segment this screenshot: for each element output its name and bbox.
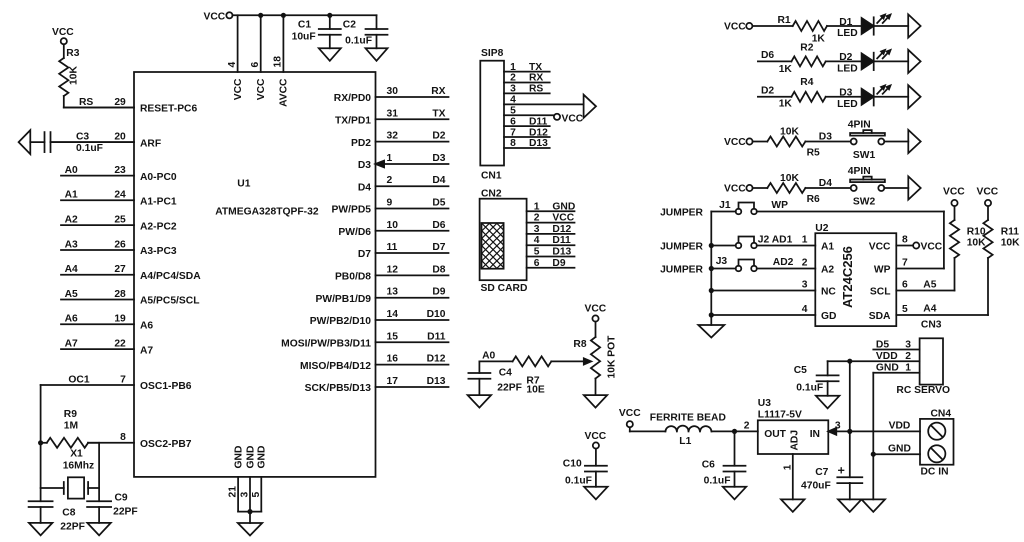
- power flag VCC (ferrite bead): [619, 408, 641, 431]
- U2 pin 8 VCC: [869, 235, 908, 253]
- jumper J1 WP: [711, 200, 788, 214]
- svg-text:J3: J3: [716, 256, 728, 267]
- wire: [805, 178, 850, 189]
- svg-text:D11: D11: [552, 235, 571, 246]
- CN2 pin 4 D11: [527, 235, 575, 246]
- svg-text:C9: C9: [115, 493, 128, 504]
- wire VDD net vertical: [849, 361, 851, 477]
- U1 pin 14 PW/PB2/D10: [310, 309, 449, 327]
- svg-text:VCC: VCC: [977, 187, 999, 198]
- U1 pin 30 RX/PD0: [334, 86, 449, 104]
- svg-text:16: 16: [387, 354, 399, 365]
- svg-text:VCC: VCC: [204, 12, 226, 23]
- node arrow SW2 net: [908, 176, 920, 199]
- CN1 pin 8 D13: [504, 138, 550, 149]
- svg-text:GND: GND: [233, 446, 244, 469]
- capacitor C6 0.1uF: [702, 431, 746, 486]
- connector CN4 DC IN body: [920, 409, 954, 478]
- svg-text:JUMPER: JUMPER: [660, 208, 703, 219]
- U1 pin 27 A4/PC4/SDA: [61, 264, 201, 282]
- svg-text:6: 6: [534, 258, 540, 269]
- svg-text:R1: R1: [778, 15, 791, 26]
- svg-text:21: 21: [228, 486, 239, 498]
- svg-text:C2: C2: [343, 20, 356, 31]
- wire: [827, 25, 862, 27]
- svg-text:DC IN: DC IN: [921, 467, 949, 478]
- capacitor C7 470uF (polarized): [801, 467, 862, 500]
- svg-text:VCC: VCC: [256, 78, 267, 100]
- node arrow D1 net: [908, 14, 920, 37]
- wire SCL to A5 net: [896, 280, 954, 291]
- CN1 pin 1 TX: [504, 62, 550, 73]
- power flag VCC (R8): [585, 304, 607, 322]
- svg-text:D13: D13: [552, 247, 571, 258]
- svg-text:VCC: VCC: [943, 187, 965, 198]
- U1 pin 23 A0-PC0: [61, 165, 177, 183]
- CN1 pin 4: [504, 95, 584, 106]
- power flag VCC (SW2 row): [724, 184, 753, 195]
- node arrow ARF (left): [19, 130, 31, 154]
- svg-text:R3: R3: [66, 48, 79, 59]
- svg-text:OSC2-PB7: OSC2-PB7: [140, 439, 192, 450]
- resistor R10 10K: [950, 206, 986, 290]
- svg-text:10K: 10K: [69, 66, 80, 85]
- svg-text:D4: D4: [358, 182, 371, 193]
- svg-text:ATMEGA328TQPF-32: ATMEGA328TQPF-32: [215, 207, 319, 218]
- svg-text:3: 3: [510, 84, 516, 95]
- svg-text:A2: A2: [821, 265, 834, 276]
- svg-text:4PIN: 4PIN: [848, 166, 871, 177]
- power flag VCC (U2 pin8): [896, 242, 943, 253]
- LED D3: [837, 85, 890, 109]
- svg-text:JUMPER: JUMPER: [660, 242, 703, 253]
- svg-text:VCC: VCC: [869, 242, 891, 253]
- power flag VCC (CN1 pin5): [554, 114, 584, 125]
- U1 pin 7 OSC1-PB6: [41, 374, 192, 392]
- svg-text:6: 6: [902, 280, 908, 291]
- svg-text:CN4: CN4: [931, 409, 952, 420]
- node arrow CN1 pin4: [584, 95, 596, 118]
- wire: [874, 96, 909, 98]
- svg-text:D2: D2: [761, 86, 774, 97]
- junction VCC rail pin18: [281, 13, 286, 18]
- svg-text:7: 7: [510, 127, 516, 138]
- svg-text:D9: D9: [432, 287, 445, 298]
- svg-text:2: 2: [802, 258, 808, 269]
- svg-text:470uF: 470uF: [801, 480, 831, 491]
- node arrow D2 net: [908, 50, 920, 73]
- U1 pin 13 PW/PB1/D9: [315, 287, 448, 305]
- wire: [884, 141, 908, 143]
- junction VDD/servo: [847, 359, 852, 364]
- wire: [758, 60, 792, 62]
- power flag VCC (top rail): [204, 12, 233, 23]
- U1 pin 16 MISO/PB4/D12: [300, 354, 448, 372]
- capacitor C10 0.1uF: [563, 449, 607, 487]
- svg-text:GND: GND: [552, 201, 575, 212]
- svg-text:A7: A7: [140, 345, 153, 356]
- svg-text:D12: D12: [529, 127, 548, 138]
- wire AD2 to U2 pin2: [757, 268, 816, 270]
- svg-text:22PF: 22PF: [497, 383, 522, 394]
- svg-text:SIP8: SIP8: [481, 48, 504, 59]
- junction J3 bus: [709, 266, 714, 271]
- U2 pin 2 A2: [802, 258, 835, 276]
- wire: [753, 141, 768, 143]
- capacitor C8 22PF: [29, 501, 85, 532]
- svg-text:PW/PB1/D9: PW/PB1/D9: [315, 294, 371, 305]
- svg-text:6: 6: [250, 62, 261, 68]
- svg-text:2: 2: [744, 421, 750, 432]
- svg-text:SDA: SDA: [869, 311, 891, 322]
- wire: [826, 96, 862, 98]
- svg-text:4: 4: [227, 62, 238, 68]
- svg-text:VCC: VCC: [52, 27, 74, 38]
- svg-text:RX/PD0: RX/PD0: [334, 93, 371, 104]
- CN1 pin 2 RX: [504, 73, 550, 84]
- svg-text:10K: 10K: [1001, 238, 1020, 249]
- svg-text:32: 32: [387, 131, 399, 142]
- svg-text:C7: C7: [815, 467, 828, 478]
- U1 pin 17 SCK/PB5/D13: [305, 376, 449, 394]
- svg-text:D3: D3: [819, 132, 832, 143]
- svg-text:0.1uF: 0.1uF: [704, 476, 731, 487]
- node arrow D3 net: [908, 85, 920, 108]
- svg-text:D3: D3: [432, 153, 445, 164]
- connector CN1 SIP8 body: [480, 48, 504, 182]
- ground under R8: [584, 395, 607, 408]
- wire GND to CN4: [873, 443, 920, 454]
- CN2 pin 6 D9: [527, 258, 575, 269]
- resistor R5 10K: [767, 127, 820, 159]
- resistor R11 10K: [983, 206, 1020, 315]
- capacitor C4 22PF: [468, 361, 522, 395]
- svg-text:1K: 1K: [779, 99, 793, 110]
- svg-text:AD2: AD2: [773, 257, 794, 268]
- svg-text:3: 3: [835, 421, 841, 432]
- wire SDA to A4 net: [896, 304, 988, 316]
- U2 pin 5 SDA: [869, 304, 908, 322]
- resistor R9 1M: [41, 409, 100, 448]
- connector CN2 SD CARD body: [429, 189, 595, 294]
- svg-text:8: 8: [510, 138, 516, 149]
- svg-text:D2: D2: [432, 131, 445, 142]
- svg-text:C6: C6: [702, 460, 715, 471]
- svg-text:GND: GND: [888, 443, 911, 454]
- U1 pin 18 AVCC (top): [273, 15, 290, 107]
- svg-text:JUMPER: JUMPER: [660, 265, 703, 276]
- CN1 pin 5: [504, 105, 554, 116]
- U1 pin 9 PW/PD5: [332, 198, 449, 216]
- svg-text:VCC: VCC: [552, 213, 574, 224]
- svg-text:LED: LED: [837, 99, 858, 110]
- svg-text:17: 17: [387, 376, 399, 387]
- jumper J2 AD1: [711, 235, 792, 249]
- ground under C4: [468, 395, 492, 408]
- LED D1 row source: [724, 22, 752, 33]
- svg-text:C1: C1: [298, 20, 311, 31]
- power flag VCC (R11): [977, 187, 999, 207]
- svg-text:3: 3: [240, 492, 251, 498]
- svg-text:NC: NC: [821, 287, 836, 298]
- svg-text:U1: U1: [237, 179, 250, 190]
- svg-text:0.1uF: 0.1uF: [76, 143, 103, 154]
- wire VCC to ferrite bead: [630, 430, 666, 432]
- svg-text:25: 25: [114, 215, 126, 226]
- svg-text:PB0/D8: PB0/D8: [335, 272, 371, 283]
- U1 pin 6 VCC (top): [250, 15, 267, 100]
- svg-text:CN1: CN1: [481, 171, 502, 182]
- svg-text:FERRITE BEAD: FERRITE BEAD: [650, 413, 726, 424]
- svg-text:4: 4: [534, 235, 540, 246]
- junction OSC2 / R9: [38, 440, 43, 445]
- svg-text:R9: R9: [64, 409, 77, 420]
- junction GND/CN4: [871, 452, 876, 457]
- svg-text:VCC: VCC: [233, 78, 244, 100]
- svg-text:22: 22: [114, 339, 126, 350]
- svg-text:MOSI/PW/PB3/D11: MOSI/PW/PB3/D11: [281, 339, 371, 350]
- inductor L1 FERRITE BEAD: [650, 413, 726, 448]
- switch SW2 4PIN: [848, 166, 885, 208]
- svg-text:D1: D1: [839, 17, 852, 28]
- junction J2 bus: [709, 243, 714, 248]
- CN2 pin 5 D13: [527, 247, 575, 258]
- junction VDD/IN: [847, 429, 852, 434]
- svg-text:D3: D3: [839, 88, 852, 99]
- svg-text:D11: D11: [427, 331, 446, 342]
- capacitor C9 22PF: [87, 493, 138, 523]
- svg-text:4: 4: [510, 95, 516, 106]
- junction GD bus: [709, 312, 714, 317]
- svg-text:WP: WP: [771, 200, 788, 211]
- svg-text:30: 30: [387, 86, 399, 97]
- svg-text:PW/PB2/D10: PW/PB2/D10: [310, 316, 372, 327]
- svg-text:LED: LED: [837, 63, 858, 74]
- svg-text:MISO/PB4/D12: MISO/PB4/D12: [300, 361, 371, 372]
- svg-text:VCC: VCC: [921, 242, 943, 253]
- U3 pin 3 IN arrow: [828, 421, 850, 435]
- wire OC1 net: [40, 385, 42, 501]
- svg-text:C3: C3: [76, 131, 89, 142]
- svg-text:16Mhz: 16Mhz: [63, 461, 94, 472]
- svg-text:VDD: VDD: [876, 351, 898, 362]
- U3 pin 1 ADJ: [782, 454, 793, 499]
- resistor R3 10K: [59, 44, 80, 107]
- svg-text:D13: D13: [529, 138, 548, 149]
- wire bead to U3: [712, 430, 758, 432]
- svg-text:A5: A5: [923, 280, 936, 291]
- op-amp U2 AT24C256 body: [815, 223, 896, 326]
- CN2 pin 2 VCC: [527, 213, 575, 224]
- svg-text:PW/PD5: PW/PD5: [332, 205, 372, 216]
- U1 pin 8 OSC2-PB7: [88, 432, 192, 450]
- svg-text:SW2: SW2: [853, 196, 876, 207]
- svg-text:GD: GD: [821, 311, 836, 322]
- svg-text:D5: D5: [876, 339, 889, 350]
- crystal X1 16Mhz: [41, 448, 100, 498]
- ground under C10: [584, 487, 608, 500]
- svg-text:29: 29: [114, 97, 126, 108]
- svg-text:VCC: VCC: [724, 184, 746, 195]
- CN3 pin 2 VDD: [850, 351, 920, 362]
- svg-text:7: 7: [120, 374, 126, 385]
- svg-text:10K: 10K: [780, 173, 799, 184]
- svg-text:A4: A4: [65, 264, 78, 275]
- svg-text:RS: RS: [529, 84, 543, 95]
- connector CN3 body: [896, 320, 950, 397]
- wire jumper ground bus: [710, 212, 712, 326]
- svg-text:24: 24: [114, 190, 126, 201]
- ground under jumper bus: [698, 325, 724, 338]
- svg-text:R6: R6: [807, 194, 820, 205]
- svg-text:SD CARD: SD CARD: [481, 283, 528, 294]
- U1 pin 2 D4: [358, 175, 449, 193]
- svg-text:A5/PC5/SCL: A5/PC5/SCL: [140, 296, 200, 307]
- svg-text:L1117-5V: L1117-5V: [758, 410, 802, 421]
- svg-text:6: 6: [510, 116, 516, 127]
- svg-text:3: 3: [905, 339, 911, 350]
- svg-text:5: 5: [251, 492, 262, 498]
- U1 pin 21 GND (bottom): [228, 446, 245, 512]
- svg-text:C10: C10: [563, 459, 582, 470]
- svg-text:U2: U2: [815, 223, 828, 234]
- svg-text:3: 3: [534, 224, 540, 235]
- ground under C6: [723, 487, 746, 500]
- svg-text:22PF: 22PF: [60, 522, 85, 533]
- svg-text:CN2: CN2: [481, 189, 502, 200]
- svg-text:D3: D3: [358, 160, 371, 171]
- svg-text:SCK/PB5/D13: SCK/PB5/D13: [305, 383, 372, 394]
- U1 pin 1 D3: [358, 153, 449, 171]
- svg-text:PD2: PD2: [351, 138, 371, 149]
- op-amp U1 ATMEGA328TQPF-32 body: [134, 72, 376, 477]
- svg-text:D12: D12: [552, 224, 571, 235]
- svg-text:A0-PC0: A0-PC0: [140, 172, 177, 183]
- svg-text:D11: D11: [529, 116, 548, 127]
- wire: [758, 96, 792, 98]
- svg-text:10K: 10K: [780, 127, 799, 138]
- svg-text:WP: WP: [874, 265, 891, 276]
- wire R7 to pot wiper: [551, 360, 584, 362]
- svg-text:D12: D12: [427, 354, 446, 365]
- svg-text:OSC1-PB6: OSC1-PB6: [140, 381, 192, 392]
- svg-text:0.1uF: 0.1uF: [565, 476, 592, 487]
- svg-text:C4: C4: [499, 368, 512, 379]
- svg-text:22PF: 22PF: [113, 507, 138, 518]
- svg-text:TX: TX: [529, 62, 542, 73]
- label JUMPER (J1): [660, 208, 703, 219]
- wire RS to RESET: [64, 107, 134, 109]
- U1 pin 28 A5/PC5/SCL: [61, 289, 200, 307]
- capacitor C1 10uF: [292, 15, 341, 48]
- U3 pin 2 OUT: [744, 421, 750, 432]
- svg-text:10K: 10K: [967, 238, 986, 249]
- wire: [753, 187, 768, 189]
- svg-text:D8: D8: [432, 264, 445, 275]
- svg-text:IN: IN: [810, 429, 820, 440]
- CN3 pin 3 D5: [873, 339, 919, 350]
- LED D2 row source: [761, 50, 774, 61]
- resistor R2 1K: [779, 43, 826, 76]
- svg-text:D9: D9: [552, 258, 565, 269]
- svg-text:3: 3: [802, 280, 808, 291]
- power flag VCC (R10): [943, 187, 965, 207]
- wire bus to U2 pin3 NC: [711, 290, 815, 292]
- svg-text:1: 1: [905, 363, 911, 374]
- svg-text:A3: A3: [65, 239, 78, 250]
- svg-text:RC SERVO: RC SERVO: [896, 385, 950, 396]
- svg-text:10: 10: [387, 220, 399, 231]
- CN2 pin 1 GND: [527, 201, 576, 212]
- ground under U3 ADJ: [781, 499, 805, 512]
- svg-text:R4: R4: [800, 77, 813, 88]
- svg-text:R2: R2: [800, 43, 813, 54]
- svg-text:5: 5: [902, 304, 908, 315]
- U1 pin 4 VCC (top): [227, 15, 244, 100]
- CN1 pin 3 RS: [504, 84, 550, 95]
- ground under C2: [366, 48, 388, 61]
- svg-text:27: 27: [114, 264, 126, 275]
- svg-text:A4: A4: [923, 304, 936, 315]
- wire C5 to VDD: [828, 360, 850, 362]
- svg-text:31: 31: [387, 108, 399, 119]
- svg-text:A7: A7: [65, 339, 78, 350]
- svg-text:1: 1: [534, 201, 540, 212]
- wire servo GND vertical: [872, 373, 874, 500]
- LED D1: [837, 15, 890, 39]
- ground under U1: [238, 523, 262, 536]
- svg-text:A1: A1: [821, 242, 834, 253]
- junction C6 node: [732, 429, 737, 434]
- svg-text:VCC: VCC: [724, 22, 746, 33]
- resistor R1 1K: [778, 15, 828, 44]
- resistor R7 10E: [513, 356, 552, 395]
- svg-text:A3-PC3: A3-PC3: [140, 246, 177, 257]
- power flag VCC (R3): [52, 27, 74, 44]
- junction VCC rail C1: [327, 13, 332, 18]
- svg-text:SCL: SCL: [870, 287, 891, 298]
- svg-text:1K: 1K: [812, 34, 826, 45]
- svg-text:9: 9: [387, 198, 393, 209]
- svg-text:TX: TX: [432, 108, 445, 119]
- wire A0 node: [479, 350, 512, 361]
- svg-text:VCC: VCC: [619, 408, 641, 419]
- svg-text:RESET-PC6: RESET-PC6: [140, 104, 197, 115]
- svg-text:VCC: VCC: [585, 304, 607, 315]
- svg-text:LED: LED: [837, 28, 858, 39]
- wire joining GND pins: [238, 512, 261, 523]
- resistor R4 1K: [779, 77, 826, 110]
- svg-text:OUT: OUT: [764, 429, 786, 440]
- U1 pin 5 GND (bottom): [251, 446, 268, 512]
- wire: [752, 25, 792, 27]
- ground under C5: [816, 396, 840, 409]
- wire VDD to CN4: [850, 421, 920, 432]
- svg-text:10uF: 10uF: [292, 32, 316, 43]
- ground under C7: [838, 499, 862, 512]
- U1 pin 3 GND (bottom): [240, 446, 257, 512]
- wire: [874, 25, 909, 27]
- svg-text:5: 5: [510, 105, 516, 116]
- ground under CN4 GND: [862, 499, 886, 512]
- svg-text:4: 4: [802, 304, 808, 315]
- svg-text:1M: 1M: [64, 421, 78, 432]
- resistor R6 10K: [767, 173, 820, 205]
- svg-text:ARF: ARF: [140, 138, 161, 149]
- svg-text:14: 14: [387, 309, 399, 320]
- potentiometer R8 10K POT: [573, 322, 617, 396]
- label JUMPER (J3): [660, 265, 703, 276]
